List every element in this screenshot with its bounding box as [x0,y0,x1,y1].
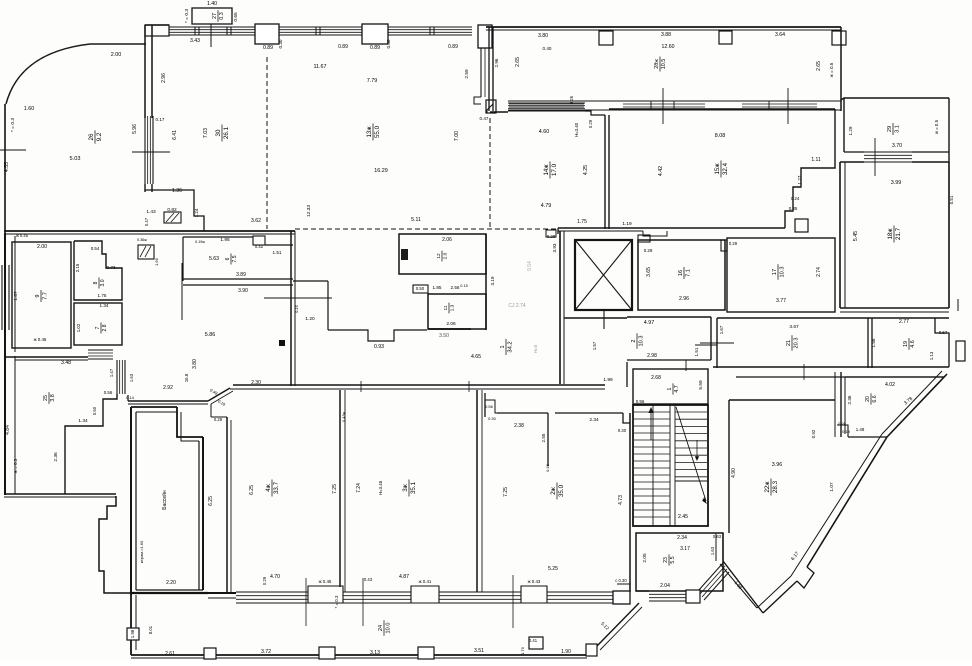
svg-text:5.96: 5.96 [132,124,138,134]
door leaf slot right edge [956,341,965,361]
svg-text:6.41: 6.41 [172,130,178,140]
window left wall lower [1,265,3,330]
svg-text:16: 16 [678,270,684,276]
svg-text:4.55: 4.55 [4,162,10,172]
svg-text:2.00: 2.00 [37,244,47,250]
svg-text:12.60: 12.60 [662,44,675,50]
wall bottom of rooms 14zh and 15zh [558,227,785,229]
svg-text:0.89: 0.89 [370,45,380,51]
wall vertical x292 divider [290,231,292,386]
wall room16 box [638,240,725,310]
wall room17 box [727,238,835,312]
svg-text:0.15: 0.15 [460,284,467,288]
svg-text:3.13: 3.13 [370,650,380,656]
svg-text:2.74: 2.74 [816,267,822,277]
svg-text:1.24: 1.24 [194,208,199,217]
svg-text:* = 0.3: * = 0.3 [184,9,190,23]
wall tambour room box [633,369,708,404]
svg-text:1.95: 1.95 [220,237,230,243]
svg-text:0.47: 0.47 [480,116,489,121]
label room21 [786,335,799,350]
svg-text:4.6: 4.6 [910,340,916,348]
svg-text:1.11: 1.11 [811,157,821,163]
svg-text:26: 26 [88,133,95,140]
shaft box between 16 17 [721,240,727,251]
svg-text:H=5: H=5 [533,344,538,353]
svg-text:1.3: 1.3 [450,304,456,311]
svg-text:7.7: 7.7 [42,292,48,300]
pier box 2 on top band [362,24,388,44]
svg-text:2.56: 2.56 [451,285,460,290]
window room30 left wall [144,116,146,184]
svg-text:4.7: 4.7 [674,385,680,392]
svg-text:6.25: 6.25 [249,485,255,495]
wall hall upper left walls [293,280,328,282]
svg-text:3ж: 3ж [402,483,409,491]
svg-text:3.64: 3.64 [775,32,785,38]
wc box 1 in hall [399,234,486,274]
shaft box below room15 [795,219,808,232]
wall hall bottom notch [328,330,427,341]
node door tick below shaft [603,310,605,329]
svg-text:2.96: 2.96 [161,73,167,83]
svg-text:1.19: 1.19 [622,221,632,227]
wall room18 right jog [957,299,959,311]
svg-text:5.86: 5.86 [205,332,216,338]
wall top right corner of room 13zh [478,25,492,48]
svg-text:8.08: 8.08 [715,133,726,139]
svg-text:3.67: 3.67 [789,324,799,330]
svg-text:0.30: 0.30 [386,39,391,48]
svg-text:5.5: 5.5 [670,556,676,563]
svg-text:0.20: 0.20 [838,421,847,426]
svg-text:ж 0.43: ж 0.43 [528,579,541,584]
svg-text:2.38: 2.38 [514,423,524,429]
wall room6 left wall [182,237,184,281]
svg-text:3.1: 3.1 [894,125,900,133]
svg-text:4.84: 4.84 [5,425,11,435]
svg-text:13ж: 13ж [366,126,373,138]
svg-text:0.89: 0.89 [338,44,348,50]
vent box on top wall 2 [719,31,732,44]
wall room20 [840,372,842,437]
svg-text:0.17: 0.17 [156,117,165,122]
svg-text:20: 20 [865,396,871,402]
svg-text:7.00: 7.00 [454,131,460,141]
svg-text:0.51: 0.51 [949,195,954,204]
svg-text:2.65: 2.65 [515,57,521,67]
stair small arrow right flight [696,440,698,458]
svg-text:2.34: 2.34 [677,535,687,541]
wall room3 room2 divider [476,390,478,592]
node door tick tambour [685,360,687,371]
svg-text:3.88: 3.88 [661,32,671,38]
svg-text:1.29: 1.29 [848,126,853,135]
svg-text:ж = 0.5: ж = 0.5 [829,62,834,77]
wall right end of strip 28zh [840,27,842,111]
svg-text:0.30: 0.30 [618,428,627,433]
vent box on top wall 1 [599,31,613,45]
svg-text:16.8: 16.8 [184,373,189,382]
window band bottom main [236,591,613,593]
wall hall right wall [559,231,561,384]
svg-text:1.40: 1.40 [207,1,217,7]
wall chamfer up to room4 corner [208,388,230,401]
svg-text:4.70: 4.70 [270,574,280,580]
window top of room 14zh [508,102,585,104]
svg-text:7.25: 7.25 [332,484,338,494]
svg-text:3.77: 3.77 [776,298,786,304]
wall small jog above shaft [643,231,667,236]
wall room22 right wall upper [834,372,836,437]
svg-text:ж 0.41: ж 0.41 [419,579,432,584]
pier jogs in bottom band [308,587,343,601]
svg-text:2.77: 2.77 [899,319,909,325]
svg-text:0.46: 0.46 [545,463,550,472]
svg-text:2.36: 2.36 [847,395,852,404]
svg-text:0.56: 0.56 [104,390,113,395]
wall room23 box [636,533,723,591]
svg-text:4ж: 4ж [265,483,272,491]
svg-text:26.1: 26.1 [223,126,230,139]
svg-text:30: 30 [215,129,222,136]
svg-text:1.27: 1.27 [797,175,802,184]
node dimension tick mid [264,297,332,299]
svg-text:керам.=1.60: керам.=1.60 [139,540,144,563]
svg-text:55.0: 55.0 [374,125,381,138]
wall room30 lower exit jog [145,190,204,231]
svg-text:16.29: 16.29 [374,168,388,174]
svg-text:2.05: 2.05 [642,553,648,563]
svg-text:1: 1 [500,345,506,348]
svg-text:21.7: 21.7 [895,227,902,240]
svg-text:0.29: 0.29 [644,248,653,253]
svg-text:3.17: 3.17 [680,546,690,552]
stair arrow up left flight [650,410,652,440]
svg-text:10.0: 10.0 [385,623,391,634]
svg-text:12: 12 [436,253,442,259]
svg-text:1.34: 1.34 [78,418,88,424]
wall room18 bottom [840,307,949,309]
svg-text:4.79: 4.79 [541,203,552,209]
svg-text:ж = 0.5: ж = 0.5 [934,119,939,134]
svg-text:2.00: 2.00 [111,52,122,58]
svg-text:7: 7 [95,326,101,329]
svg-text:4.42: 4.42 [658,166,664,176]
svg-text:2.96: 2.96 [679,296,689,302]
wall room2 top walls [484,393,486,417]
wall room2 right wall [629,413,631,592]
svg-text:10.3: 10.3 [638,336,644,347]
svg-text:1.13: 1.13 [929,351,934,360]
svg-text:0.35: 0.35 [789,206,798,211]
wall corridor wall above pool [127,395,129,401]
svg-text:0.96: 0.96 [636,399,645,404]
svg-text:0.3: 0.3 [219,12,225,20]
wire outer left wall [4,104,6,233]
svg-text:25: 25 [43,395,49,401]
wall pool box thick [130,407,132,595]
svg-text:1.36: 1.36 [172,188,182,194]
svg-text:2.59: 2.59 [464,69,470,79]
wall between room14 and room15 [604,115,606,229]
wc small box 0.50 [413,285,428,293]
svg-text:5.59: 5.59 [698,380,704,390]
wall rooms21 19 bottom double [713,366,949,368]
svg-text:0.65: 0.65 [233,12,239,22]
wall room22 left and top [728,400,730,533]
svg-text:24: 24 [378,625,384,631]
wall hall top right jog [546,230,556,237]
svg-text:29: 29 [887,126,893,132]
wall right of wc boxes [485,234,487,330]
svg-text:4.73: 4.73 [618,495,624,505]
svg-text:5.45: 5.45 [853,231,859,241]
svg-text:1: 1 [667,387,673,390]
svg-text:CJ 2.74: CJ 2.74 [508,303,525,309]
svg-text:2.36: 2.36 [53,452,59,462]
svg-text:Бассейн: Бассейн [161,490,168,510]
svg-text:9.2: 9.2 [96,132,103,141]
svg-text:28.3: 28.3 [772,480,779,493]
svg-text:3.0: 3.0 [100,279,106,286]
wc box 2 in hall [428,294,486,329]
label room2zh [550,483,565,500]
svg-text:0.41: 0.41 [529,638,538,643]
node door tick rooms21 bottom [803,364,805,380]
svg-text:3.93: 3.93 [552,243,557,252]
wall duct alcove left of room4 [210,404,212,417]
svg-text:0.43ж: 0.43ж [341,411,346,422]
svg-text:3.80: 3.80 [192,359,198,369]
svg-text:0.82: 0.82 [167,207,177,213]
svg-text:1.51: 1.51 [694,347,699,356]
svg-text:17.0: 17.0 [551,163,558,176]
svg-text:1.48: 1.48 [856,427,865,432]
svg-text:15ж: 15ж [714,163,721,175]
svg-text:1.57: 1.57 [592,341,597,350]
elevator shaft box with X [575,240,632,310]
stair outer box [633,405,708,526]
svg-text:12.33: 12.33 [306,205,312,217]
wire dashed division room30 and 13zh [266,57,268,229]
svg-text:H=3.40: H=3.40 [574,122,579,137]
wall room30 left wall double [144,25,146,118]
svg-text:2.06: 2.06 [442,237,452,243]
svg-text:2.8: 2.8 [102,324,108,331]
wall room9 box [12,242,71,348]
svg-text:0.56: 0.56 [485,404,494,409]
door blob mark [279,340,285,346]
svg-text:ж 0.45: ж 0.45 [16,233,29,238]
svg-text:3.50: 3.50 [439,333,449,339]
svg-text:6.25: 6.25 [208,496,214,506]
wall room25 top wall [4,356,88,358]
svg-text:0.54: 0.54 [91,246,100,251]
wall room14 top left corner [486,100,496,113]
svg-text:1.60: 1.60 [24,106,35,112]
stair diagonal arrow [676,407,706,501]
svg-text:2.55: 2.55 [541,433,546,442]
svg-text:0.47: 0.47 [144,217,149,226]
svg-text:4.60: 4.60 [539,129,550,135]
wall room14 top right jog [585,111,605,115]
wall below rooms 16 17 [627,316,711,318]
svg-text:7.24: 7.24 [356,483,362,493]
svg-text:1.79: 1.79 [520,646,525,655]
node dimension tick through band 29 [874,138,876,176]
svg-text:17: 17 [772,269,778,275]
svg-text:0.29: 0.29 [214,417,223,422]
svg-text:4.87: 4.87 [399,574,409,580]
vent boxes left cluster [138,245,154,259]
svg-text:1.07: 1.07 [829,482,835,492]
svg-text:18ж: 18ж [887,228,894,240]
svg-text:0.36ж: 0.36ж [137,238,147,242]
svg-text:10.5: 10.5 [661,59,667,70]
svg-text:3.90: 3.90 [238,288,248,294]
wall room19 right jog [935,318,949,367]
wall corridor2 bottom [627,359,711,361]
wall room4 left wall [226,417,228,592]
label room4zh [265,480,280,497]
svg-text:1.75: 1.75 [577,219,587,225]
stair flight gap lines [669,405,671,526]
svg-text:2.04: 2.04 [660,583,670,589]
svg-text:0.29: 0.29 [262,576,267,585]
svg-text:3.8: 3.8 [50,394,56,402]
wall room8 stepped box [74,241,122,300]
svg-text:0.30: 0.30 [278,39,283,48]
svg-text:22ж: 22ж [764,481,771,493]
svg-text:7.79: 7.79 [367,78,378,84]
wire dashed division 13zh and 14zh [489,118,491,229]
svg-text:0.43: 0.43 [364,577,373,582]
node door ticks corridor wall [360,381,362,392]
svg-text:0.29: 0.29 [588,119,593,128]
svg-text:5.63: 5.63 [209,256,219,262]
wall bottom outer [131,654,587,656]
label rooms16 17 [678,267,691,279]
wall main corridor wall lower y385 [233,384,605,386]
svg-text:5.25: 5.25 [548,566,558,572]
svg-text:8: 8 [93,281,99,284]
svg-text:3.19: 3.19 [490,276,495,285]
svg-text:H=3.45: H=3.45 [378,480,383,495]
wall outer diagonal mid [807,437,887,567]
wall outer diagonal top [887,374,947,437]
svg-text:2: 2 [631,339,637,342]
svg-text:0.19ж: 0.19ж [195,240,205,244]
svg-text:3.80: 3.80 [538,33,548,39]
label room3zh [402,480,417,497]
wall bottom leftmost segment [208,592,236,594]
svg-text:7.03: 7.03 [203,128,209,138]
stair center stringer [652,405,654,526]
svg-text:3.96: 3.96 [772,462,783,468]
svg-text:3.89: 3.89 [236,272,246,278]
pier boxes on bottom wall [204,648,216,659]
window band room23 bottom [649,590,686,592]
wall room7 box [74,303,122,345]
svg-text:7.25: 7.25 [503,487,509,497]
svg-text:1.88: 1.88 [871,338,876,347]
svg-text:1.85: 1.85 [433,285,442,290]
svg-text:1.51: 1.51 [273,250,282,255]
svg-text:2.65: 2.65 [816,61,822,71]
svg-text:14ж: 14ж [543,164,550,176]
svg-text:0.24: 0.24 [791,196,800,201]
svg-text:2.20: 2.20 [166,580,176,586]
svg-text:35.1: 35.1 [410,481,417,494]
stair treads right flight [675,411,707,413]
node dimension ticks through band [662,88,664,124]
svg-text:0.50: 0.50 [416,286,425,291]
svg-text:1.67: 1.67 [719,325,724,334]
wall room6 top walls [183,236,253,238]
svg-text:1.20: 1.20 [305,316,315,322]
svg-text:0.73: 0.73 [107,265,116,270]
svg-text:23: 23 [663,557,669,563]
vent box on top wall 3 [832,31,846,45]
svg-text:4.90: 4.90 [731,468,737,478]
svg-text:6.6: 6.6 [872,395,878,402]
window top band segment 2 [279,26,362,28]
svg-text:4.65: 4.65 [471,354,481,360]
svg-text:2.61: 2.61 [165,651,175,657]
wall room15 stepped right edge [785,109,835,228]
svg-text:0.57: 0.57 [939,330,948,335]
svg-text:1.99: 1.99 [603,377,613,383]
svg-text:2ж: 2ж [550,486,557,494]
svg-text:1.34: 1.34 [100,303,109,308]
wall outer diagonal notch [797,567,814,588]
wall room18 box [839,162,841,308]
pier right of room23 window [686,590,700,603]
wall vertex to room23 [723,561,763,613]
svg-text:2.68: 2.68 [651,375,661,381]
svg-text:0.19: 0.19 [842,429,851,434]
svg-text:с 0.30: с 0.30 [615,578,627,583]
pier before bottom diagonal [586,644,597,656]
hatch box near room30 exit [164,212,181,223]
svg-text:8.01: 8.01 [148,625,153,634]
node door tick room21 [700,342,734,344]
svg-text:4.97: 4.97 [644,320,655,326]
window top band segment 3 [388,26,472,28]
svg-text:1.63: 1.63 [129,373,134,382]
svg-text:0.40: 0.40 [543,46,552,51]
svg-text:1.98: 1.98 [130,629,135,638]
svg-text:0.30: 0.30 [488,416,497,421]
wall outer diagonal to vertex [763,581,797,613]
window in room25 top wall [88,349,113,351]
svg-text:7.1: 7.1 [685,269,691,277]
svg-text:ж 0.45: ж 0.45 [34,337,47,342]
svg-text:2.06: 2.06 [446,321,456,327]
window top band main [169,26,255,28]
svg-text:6: 6 [225,257,231,260]
wall room25 inner walls [65,394,117,494]
wall 13zh window bottom jog [474,97,481,104]
wall top wall right section [486,26,841,28]
svg-text:1.75: 1.75 [98,293,107,298]
wall corridor right of stair [722,533,724,561]
svg-text:5.03: 5.03 [70,156,81,162]
svg-text:0.63: 0.63 [713,534,722,539]
pier box on top band [255,24,279,44]
svg-text:3.43: 3.43 [190,38,200,44]
